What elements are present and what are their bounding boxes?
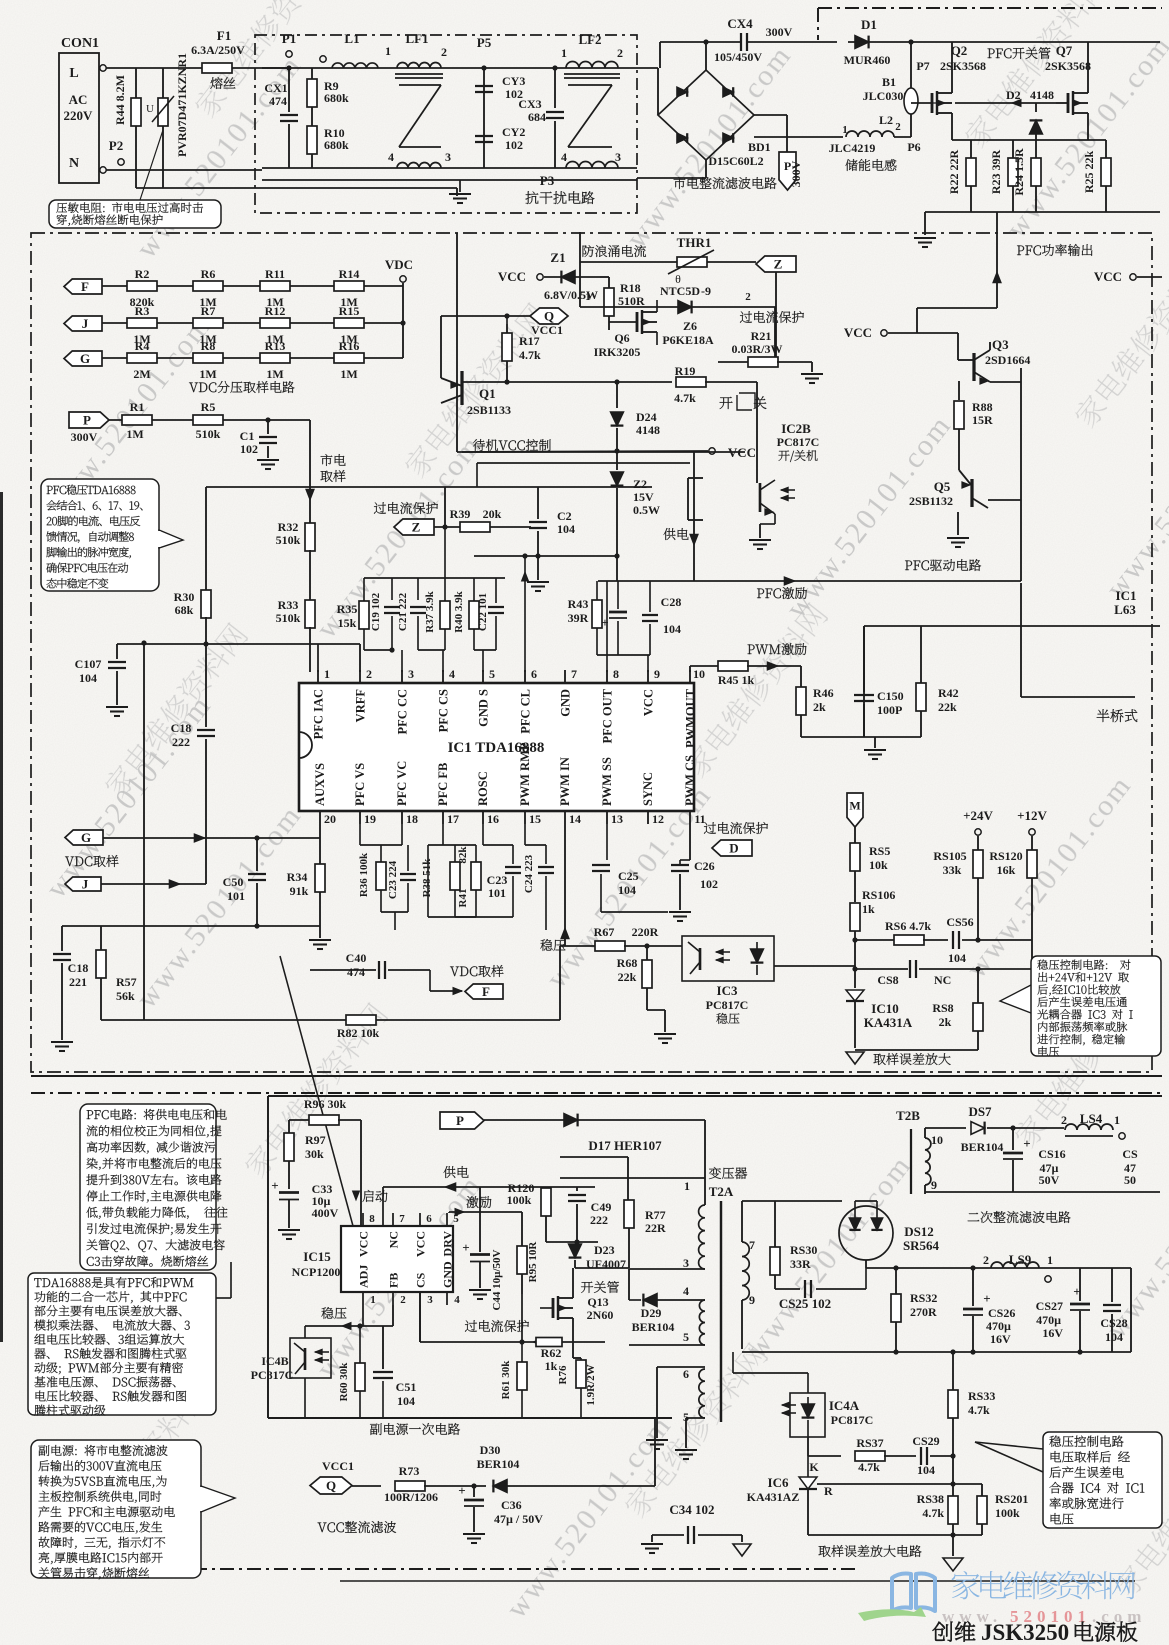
resistor RS32 270R [895,1268,897,1294]
svg-text:R42: R42 [938,686,959,700]
svg-text:KA431A: KA431A [864,1015,913,1030]
svg-text:PWM IN: PWM IN [558,757,572,806]
bottom secondary bus [741,1349,743,1352]
IC15 pin 1 ADJ [362,1292,364,1305]
resistor R30 68k [205,487,207,591]
supply node Z2 line [524,556,526,672]
svg-text:270R: 270R [910,1305,937,1319]
svg-text:102: 102 [505,138,523,152]
svg-text:222: 222 [590,1213,608,1227]
svg-text:K: K [809,1460,819,1474]
svg-text:IC15: IC15 [303,1249,331,1264]
svg-text:102: 102 [700,877,718,891]
MOSFET Q13 2N60 [581,1281,619,1293]
svg-text:+: + [1073,1284,1080,1299]
resistor RS201 100k [981,1484,983,1496]
svg-text:PFC OUT: PFC OUT [601,688,615,743]
capacitor CY3 [475,85,493,87]
svg-text:+: + [458,1483,465,1498]
flag J [64,316,102,331]
resistor R82 10k [346,1015,376,1025]
svg-text:Q: Q [326,1478,336,1493]
svg-text:D2: D2 [1006,88,1021,102]
wire R46 C150 ground [801,736,921,738]
svg-text:4.7k: 4.7k [922,1506,944,1520]
svg-text:CS16: CS16 [1038,1147,1065,1161]
svg-text:R14: R14 [339,267,360,281]
resistor R88 15R [958,381,960,400]
svg-text:R19: R19 [675,364,696,378]
pin 6 PFC CL [524,670,526,683]
svg-text:CY2: CY2 [502,125,525,139]
svg-text:BER104: BER104 [632,1320,675,1334]
svg-text:F: F [482,984,490,999]
svg-text:D24: D24 [636,410,657,424]
pin 19 PFC VS [359,811,361,824]
svg-text:PWM SS: PWM SS [600,757,614,806]
svg-text:5: 5 [683,1330,689,1344]
varistor PVR07D471KZNR1 [162,68,164,98]
svg-text:R61 30k: R61 30k [500,1360,512,1400]
svg-text:R2: R2 [135,267,150,281]
resistor R61 30k [521,1342,523,1363]
resistor RS33 4.7k [948,1390,958,1418]
ground C2 [537,556,539,580]
wire mains sampling down arrow [309,420,311,525]
svg-text:13: 13 [611,812,623,826]
svg-text:1: 1 [370,1294,376,1306]
svg-text:3: 3 [615,150,621,164]
svg-text:510R: 510R [618,294,645,308]
MOSFET Q7 [1056,102,1068,104]
svg-text:16V: 16V [1042,1326,1063,1340]
pin 5 GND S [482,670,484,683]
diode D17 HER107 [576,1114,578,1127]
svg-text:104: 104 [557,522,575,536]
resistor RS8 2k [977,969,979,1003]
svg-text:470µ: 470µ [986,1319,1011,1333]
svg-text:R15: R15 [339,304,360,318]
resistor R45 1k [718,661,748,671]
svg-text:JLC0303: JLC0303 [863,89,910,103]
capacitor C33 10u 400V [279,1191,299,1194]
svg-text:220R: 220R [632,925,659,939]
svg-text:R22 22R: R22 22R [947,150,961,195]
svg-text:PC817C: PC817C [251,1368,294,1382]
capacitor CS27 470u 16V [1079,1268,1081,1301]
svg-text:U: U [146,103,154,115]
wire to half-bridge [864,625,1160,627]
resistor R34 91k [319,824,321,864]
svg-text:CON1: CON1 [61,36,99,51]
optocoupler IC3 PC817C [682,936,774,981]
resistors R22 R23 R24 R25 [952,139,1106,141]
svg-text:R39: R39 [450,507,471,521]
svg-text:4148: 4148 [636,423,660,437]
svg-text:R30: R30 [174,590,195,604]
frame: EMI filter dashed box 抗干扰电路 [255,35,637,213]
resistor R18 510R [608,277,610,288]
svg-text:4.7k: 4.7k [858,1460,880,1474]
svg-text:100P: 100P [877,703,902,717]
flag P 300V input [69,412,109,428]
wire pin8 up to drive row [606,581,608,672]
svg-text:47µ / 50V: 47µ / 50V [494,1512,543,1526]
capacitor C51 104 [382,1326,384,1369]
footer logo book icon [892,1574,935,1612]
svg-text:3: 3 [427,1294,433,1306]
resistors R1 R5 [109,419,310,421]
svg-text:1: 1 [324,667,330,681]
svg-text:R36 100k: R36 100k [358,852,370,897]
svg-text:R5: R5 [201,400,216,414]
svg-text:2: 2 [400,1294,406,1306]
svg-text:15k: 15k [338,616,357,630]
svg-text:RS33: RS33 [968,1389,995,1403]
diode DS7 BER104 [925,1127,966,1129]
svg-text:104: 104 [663,622,681,636]
grounds bottom [628,1342,630,1345]
svg-text:R76: R76 [557,1365,569,1384]
svg-text:50V: 50V [1039,1173,1060,1187]
svg-text:Z6: Z6 [683,319,697,333]
svg-text:CX1: CX1 [264,81,287,95]
wire filter bottom [262,167,637,169]
svg-text:510k: 510k [196,427,221,441]
svg-text:C36: C36 [501,1498,522,1512]
wire secondary output [742,1200,842,1202]
svg-text:RS105: RS105 [933,849,966,863]
svg-text:R67: R67 [594,925,615,939]
resistor RS30 33R [774,1201,776,1247]
svg-text:VCC: VCC [414,1231,428,1257]
svg-text:C25: C25 [618,869,639,883]
svg-text:6.3A/250V: 6.3A/250V [191,43,245,57]
T2A aux winding 6-5 [657,1366,705,1368]
wire T2B bottom [925,1191,1160,1193]
resistor R17 4.7k [506,324,508,333]
svg-text:R82 10k: R82 10k [337,1026,380,1040]
svg-text:FB: FB [387,1273,401,1288]
svg-text:CS: CS [414,1272,428,1288]
ground under C25 [601,911,668,913]
svg-text:2SK3568: 2SK3568 [1045,59,1091,73]
wire source bus bottom [925,211,1160,213]
svg-text:R57: R57 [116,975,137,989]
svg-text:50: 50 [1124,1173,1136,1187]
resistor R42 22k [920,626,922,683]
svg-text:R6: R6 [201,267,216,281]
svg-text:56k: 56k [116,989,135,1003]
wire R82 row [101,1019,560,1021]
svg-text:PC817C: PC817C [706,998,749,1012]
svg-text:2k: 2k [813,700,826,714]
svg-text:16: 16 [487,812,499,826]
svg-text:P6KE18A: P6KE18A [662,333,714,347]
wire DRV to gate [449,1211,522,1213]
svg-text:R38 51k: R38 51k [421,858,433,898]
svg-text:1k: 1k [545,1359,558,1373]
svg-text:2: 2 [617,46,623,60]
T2A secondary 7-9 [741,1201,743,1242]
svg-text:2M: 2M [133,367,150,381]
R77 feed row [560,1156,628,1158]
svg-text:CS25 102: CS25 102 [779,1296,831,1311]
svg-text:C28: C28 [661,595,682,609]
startup wire [360,1120,362,1226]
svg-text:DRV: DRV [441,1231,455,1257]
svg-text:104: 104 [618,883,636,897]
svg-text:L: L [69,66,78,81]
frame: separator dash-dot [31,1092,1162,1094]
svg-text:3: 3 [445,150,451,164]
capacitor CS16 47u 50V [1010,1125,1015,1130]
resistor R9 [311,68,313,80]
wire from R82 row to IC3 [559,946,561,1020]
svg-text:R88: R88 [972,400,993,414]
svg-text:33R: 33R [790,1257,811,1271]
pin 16 ROSC [482,811,484,824]
svg-text:2: 2 [745,291,751,303]
svg-text:PWM RMP: PWM RMP [518,742,532,806]
flag G [64,351,102,366]
svg-text:4: 4 [388,150,394,164]
svg-text:LF2: LF2 [578,32,601,47]
R38 51k R41 82k under pin17 [442,824,444,845]
transistor Q3 2SD1664 [972,353,975,381]
svg-text:NTC5D: NTC5D [660,284,700,298]
svg-text:Q6: Q6 [614,331,629,345]
flag D [712,840,752,856]
wire L [106,67,202,69]
wire RS33 column [952,1352,954,1390]
wire PFC output with arrow [996,212,998,308]
pin 15 PWM RMP [524,811,526,824]
svg-text:C2: C2 [557,509,572,523]
svg-text:C22 101: C22 101 [477,593,489,631]
svg-text:510k: 510k [276,533,301,547]
svg-text:22R: 22R [645,1221,666,1235]
svg-text:PFC FB: PFC FB [436,763,450,806]
svg-text:C40: C40 [346,951,367,965]
svg-text:Q1: Q1 [479,386,496,401]
title 创维 JSK3250 电源板 [933,1622,976,1642]
svg-text:3: 3 [408,667,414,681]
svg-text:P7: P7 [916,59,929,73]
svg-text:GND: GND [559,689,573,717]
svg-text:R37 3.9k: R37 3.9k [424,590,436,632]
svg-text:+: + [983,1291,990,1306]
PWM drive row R45 [748,643,807,655]
svg-text:T2A: T2A [709,1184,734,1199]
svg-text:RS5: RS5 [869,844,890,858]
pin 4 PFC CS [442,670,444,683]
svg-text:2: 2 [1061,1113,1067,1127]
annotation PFC circuit note [280,956,353,1226]
svg-text:1: 1 [561,46,567,60]
svg-text:RS106: RS106 [862,888,895,902]
inductor L1 [320,56,326,62]
switch symbol 开关 [720,397,733,409]
svg-text:680k: 680k [324,138,349,152]
svg-text:4148: 4148 [1030,88,1054,102]
svg-text:100k: 100k [995,1506,1020,1520]
annotation TDA16888 dual-chip note [28,1273,216,1415]
svg-text:JLC4219: JLC4219 [829,141,876,155]
svg-text:19: 19 [364,812,376,826]
svg-text:VCC: VCC [357,1231,371,1257]
svg-text:17: 17 [447,812,459,826]
svg-text:D17 HER107: D17 HER107 [588,1138,662,1153]
svg-text:680k: 680k [324,91,349,105]
svg-text:R60 30k: R60 30k [338,1362,350,1402]
svg-text:R68: R68 [617,956,638,970]
svg-text:P: P [456,1113,464,1128]
svg-text:8: 8 [613,667,619,681]
svg-text:+: + [1023,1136,1030,1151]
svg-text:1: 1 [1114,1113,1120,1127]
svg-text:C26: C26 [694,859,715,873]
capacitor C49 222 [576,1187,578,1191]
svg-text:NCP1200: NCP1200 [292,1265,341,1279]
svg-text:RS8: RS8 [932,1001,953,1015]
svg-text:222: 222 [172,735,190,749]
svg-text:20k: 20k [483,507,502,521]
svg-text:M: M [849,799,860,813]
svg-text:Z2: Z2 [633,477,647,491]
flag Z overcurrent [756,256,796,272]
wire driver output [990,381,1021,383]
svg-text:-9: -9 [701,284,711,298]
MOSFET Q6 IRK3205 [579,232,581,307]
svg-text:104: 104 [917,1463,935,1477]
P flag supply [440,1112,484,1129]
svg-text:C150: C150 [877,689,904,703]
resistor RS5 10k [850,843,860,871]
svg-text:R45 1k: R45 1k [718,673,755,687]
svg-text:R7: R7 [201,304,216,318]
resistor R77 22R [627,1157,629,1200]
wire RS6 CS8 rows [855,939,895,941]
resistor R46 2k [800,666,802,687]
svg-text:B1: B1 [882,75,896,89]
svg-text:Z1: Z1 [550,250,565,265]
svg-text:6: 6 [683,1367,689,1381]
svg-text:Q7: Q7 [1056,43,1073,58]
ground R34 [319,926,321,938]
svg-text:300V: 300V [766,25,793,39]
pin 7 GND [564,670,566,683]
svg-text:2: 2 [441,45,447,59]
svg-text:Z: Z [774,257,783,272]
svg-text:RS201: RS201 [995,1492,1028,1506]
svg-text:1: 1 [684,1179,690,1193]
svg-text:VCC1: VCC1 [322,1459,354,1473]
svg-text:R: R [824,1484,833,1498]
svg-text:IC1: IC1 [1116,588,1137,603]
svg-text:PWMOUT: PWMOUT [684,688,698,748]
svg-text:470µ: 470µ [1036,1313,1061,1327]
svg-text:1k: 1k [862,902,875,916]
bottom node row [808,1534,982,1536]
svg-text:C19 102: C19 102 [370,592,382,631]
ground EMI [459,180,461,192]
svg-text:300V: 300V [71,430,98,444]
frame: footer rule [340,1580,1135,1582]
svg-text:R18: R18 [620,281,641,295]
svg-text:2SB1132: 2SB1132 [909,494,953,508]
frame: main PFC dash-dot box [31,233,1152,1072]
svg-text:400V: 400V [312,1206,339,1220]
svg-text:100R/1206: 100R/1206 [384,1490,438,1504]
IC15 pin 5 DRV [446,1213,448,1226]
svg-text:IRK3205: IRK3205 [594,345,641,359]
svg-text:ROSC: ROSC [476,771,490,806]
wire bridge bottom [705,160,707,178]
svg-text:RS38: RS38 [917,1492,944,1506]
svg-text:11: 11 [694,812,705,826]
flag F VDC sampling [450,965,503,977]
transistor Q5 2SB1132 [970,479,973,507]
svg-text:KA431AZ: KA431AZ [747,1490,800,1504]
wire top hor [206,486,652,488]
svg-text:C18: C18 [68,961,89,975]
svg-text:82k: 82k [457,846,469,864]
svg-text:100k: 100k [507,1193,532,1207]
svg-text:4: 4 [561,150,567,164]
annotation standby supply note [31,1440,201,1578]
caps cluster C19 C21 R37 R40 C22 [364,577,505,579]
annotation PFC regulation note [41,479,159,591]
svg-text:C18: C18 [171,721,192,735]
flag J [65,877,101,891]
svg-text:R44 8.2M: R44 8.2M [113,75,127,125]
IC15 pin 4 GND [446,1292,448,1305]
svg-text:10: 10 [693,667,705,681]
resistor R60 30k [362,1305,364,1326]
wire gate bus D2 [932,102,952,104]
svg-text:SR564: SR564 [903,1238,940,1253]
svg-text:G: G [80,351,90,366]
pin 12 SYNC [647,811,649,824]
svg-text:R40 3.9k: R40 3.9k [453,590,465,632]
svg-text:2N60: 2N60 [587,1308,614,1322]
svg-text:CS29: CS29 [912,1434,939,1448]
pin 3 PFC CC [401,670,403,683]
svg-text:JSK3250: JSK3250 [981,1620,1069,1645]
svg-text:6: 6 [531,667,537,681]
wire bottom loop [136,187,457,189]
IC15 pin 2 FB [392,1292,394,1305]
svg-text:C50: C50 [223,875,244,889]
svg-text:MUR460: MUR460 [844,53,891,67]
svg-text:R25 22k: R25 22k [1082,151,1096,194]
svg-text:NC: NC [387,1231,401,1248]
C23 101 under pin16 [482,824,484,845]
svg-text:5: 5 [489,667,495,681]
svg-text:9: 9 [931,1178,937,1192]
svg-text:Q13: Q13 [587,1295,608,1309]
flag F [64,279,102,294]
svg-text:R62: R62 [541,1346,562,1360]
flag G VDC sampling [65,830,103,845]
svg-text:2SD1664: 2SD1664 [985,353,1030,367]
svg-text:BD1: BD1 [748,140,771,154]
svg-text:NC: NC [934,973,951,987]
svg-text:R16: R16 [339,339,360,353]
svg-text:R23 39R: R23 39R [989,150,1003,195]
svg-text:C24 223: C24 223 [523,854,535,893]
